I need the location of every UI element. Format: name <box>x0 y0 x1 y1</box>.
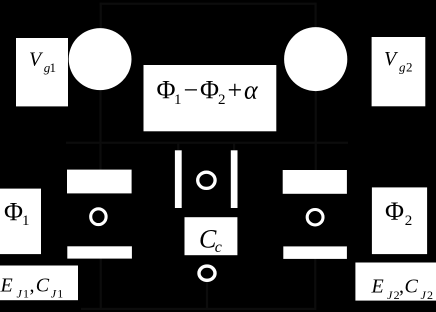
svg-text:+: + <box>228 75 243 104</box>
island node circle right <box>284 27 347 91</box>
coupling capacitor right plate <box>231 150 238 208</box>
island node circle left <box>69 28 132 90</box>
svg-text:,: , <box>30 274 35 296</box>
wire stub to cap right plate <box>233 142 235 151</box>
svg-text:1: 1 <box>50 60 57 75</box>
svg-text:c: c <box>215 239 222 256</box>
svg-text:α: α <box>244 75 259 104</box>
svg-text:2: 2 <box>406 60 413 75</box>
wire loop R to ground rail <box>314 258 316 310</box>
qubit 1 loop top electrode <box>67 170 132 194</box>
svg-text:Φ: Φ <box>157 75 176 104</box>
svg-text:1: 1 <box>57 287 63 301</box>
svg-text:g: g <box>399 60 406 75</box>
label box Phi1 <box>0 189 41 255</box>
svg-text:Φ: Φ <box>200 75 219 104</box>
svg-text:J: J <box>51 287 57 301</box>
svg-text:J: J <box>421 288 427 302</box>
svg-text:1: 1 <box>174 92 182 108</box>
label box EJ1 CJ1 <box>0 266 78 301</box>
label box EJ2 CJ2 <box>355 263 436 303</box>
label box flux Phi1 - Phi2 + alpha <box>144 65 277 131</box>
wire gate lead right <box>315 3 317 29</box>
svg-text:1: 1 <box>23 287 29 301</box>
wire node ring to ground rail <box>206 281 208 309</box>
svg-text:J: J <box>387 288 393 302</box>
svg-text:−: − <box>184 75 199 104</box>
svg-text:Φ: Φ <box>4 197 23 226</box>
qubit 1 loop bottom electrode <box>67 246 132 258</box>
node ring bottom <box>199 266 215 280</box>
label box Cc <box>185 217 238 256</box>
wire bottom ground rail <box>81 308 316 310</box>
svg-text:J: J <box>17 287 23 301</box>
wire gate lead left <box>100 3 102 30</box>
wire island R to loop R <box>315 89 317 170</box>
coupling junction ring top <box>198 172 215 188</box>
wire stub to cap left plate <box>177 142 179 151</box>
josephson junction J2 ring <box>307 210 323 225</box>
svg-text:E: E <box>371 276 384 298</box>
svg-text:2: 2 <box>218 92 226 108</box>
qubit 2 loop top electrode <box>283 170 347 194</box>
svg-text:E: E <box>0 274 13 296</box>
svg-text:C: C <box>36 274 50 296</box>
wire top bias rail <box>100 3 317 5</box>
qubit 2 loop bottom electrode <box>283 246 347 259</box>
label box Vg2 <box>372 37 426 106</box>
coupling capacitor left plate <box>175 150 182 208</box>
wire loop L to ground rail <box>100 258 102 310</box>
svg-text:,: , <box>399 276 404 298</box>
wire mid coupling bus <box>66 142 348 144</box>
svg-text:2: 2 <box>405 213 413 229</box>
svg-text:2: 2 <box>427 288 433 302</box>
label box Phi2 <box>372 187 427 254</box>
label box Vg1 <box>16 38 68 106</box>
svg-text:Φ: Φ <box>385 197 404 226</box>
josephson junction J1 ring <box>91 209 106 225</box>
svg-text:1: 1 <box>22 213 30 229</box>
svg-text:C: C <box>405 276 419 298</box>
wire island L to loop L <box>99 89 101 170</box>
